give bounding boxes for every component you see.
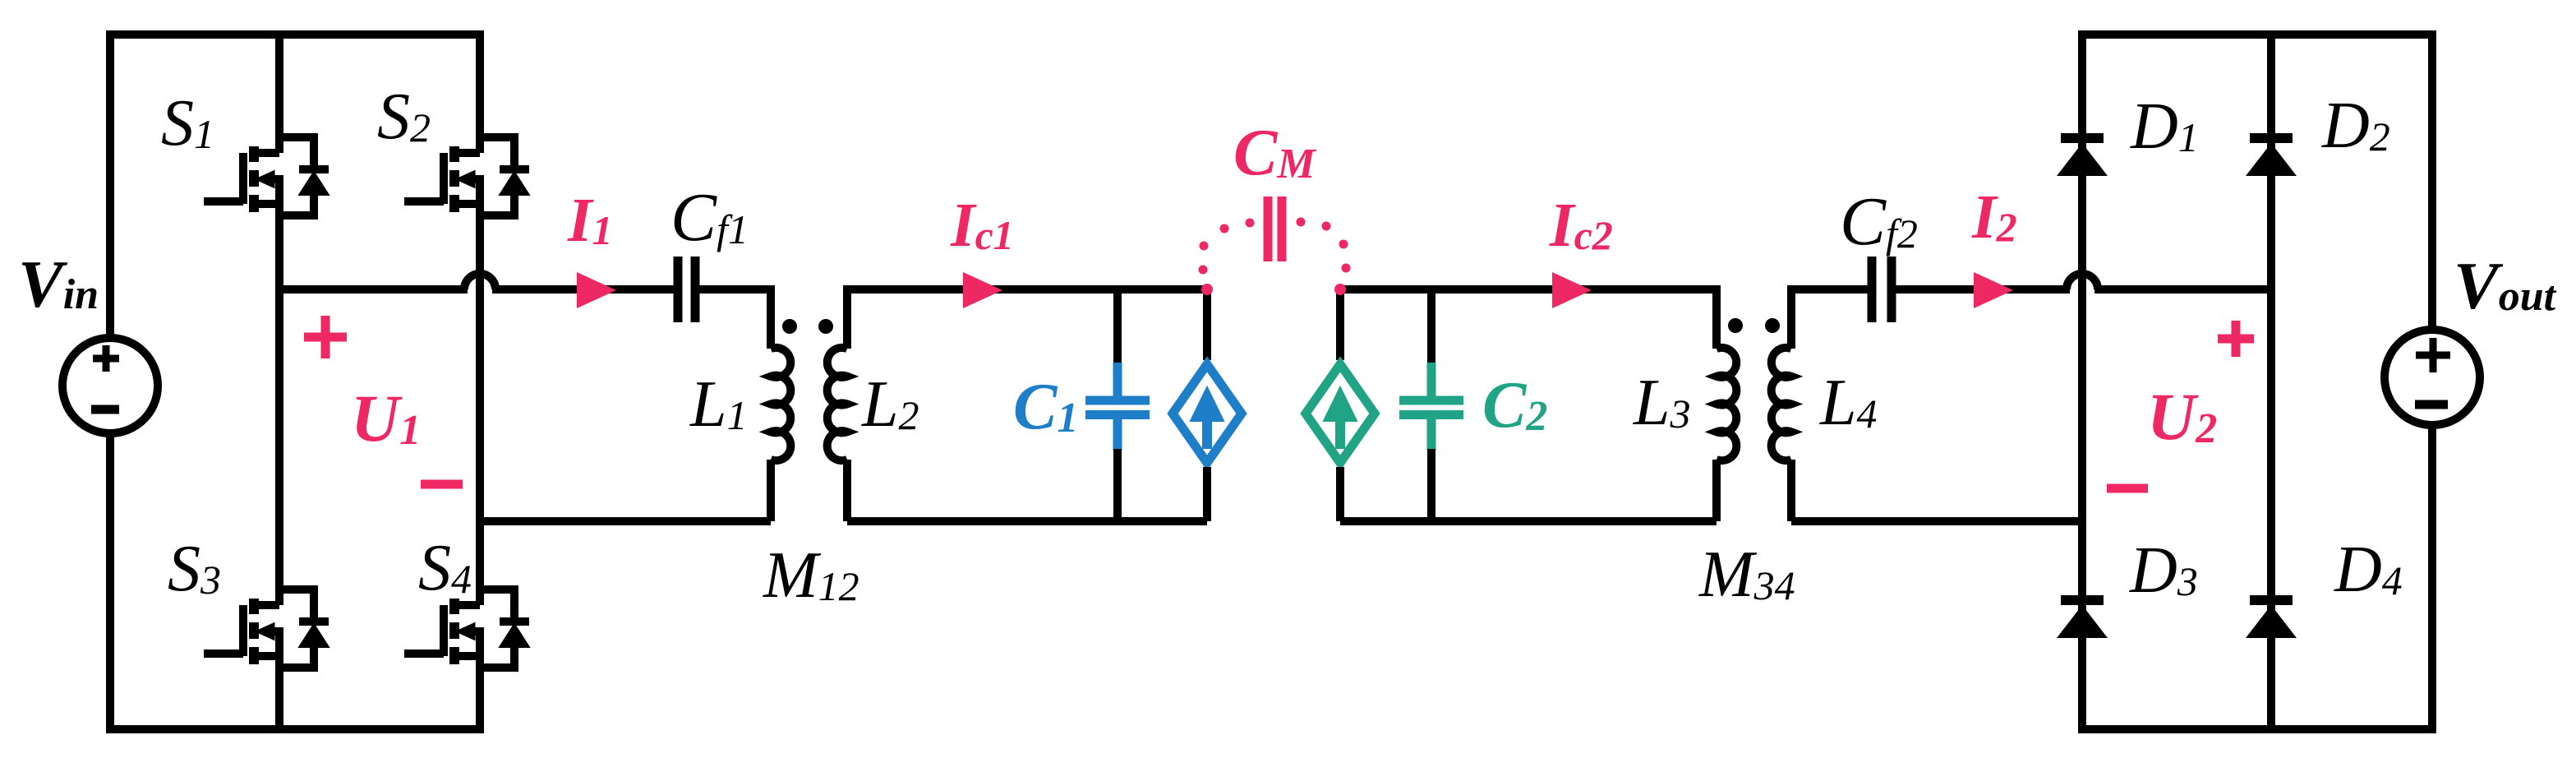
svg-text:CM: CM — [1233, 117, 1316, 189]
svg-text:L1: L1 — [689, 368, 748, 441]
svg-text:M12: M12 — [763, 539, 859, 612]
transistor S2 — [404, 137, 529, 215]
dot polarity mark L1 — [782, 319, 797, 334]
label U1 minus — [421, 480, 463, 489]
svg-text:D1: D1 — [2130, 90, 2199, 163]
inductor L3 (primary winding of M34) — [1717, 285, 1736, 521]
inductor L2 (secondary winding of M12) — [827, 285, 847, 521]
wire top-left rail — [106, 30, 484, 39]
svg-text:Ic1: Ic1 — [950, 191, 1014, 260]
wire L2 loop top rail — [847, 285, 1207, 294]
svg-text:I1: I1 — [567, 186, 613, 255]
inductor L4 (secondary winding of M34) — [1772, 285, 1791, 521]
wire dependent source 2 branch lower — [1336, 467, 1344, 521]
svg-text:S2: S2 — [377, 81, 431, 153]
svg-text:Vout: Vout — [2454, 248, 2557, 323]
wire Cf2 to rectifier with crossover hump — [1893, 274, 2271, 289]
wire top-right rail — [2078, 30, 2432, 39]
svg-text:D3: D3 — [2129, 534, 2198, 607]
svg-text:S1: S1 — [161, 87, 214, 159]
dot polarity mark L3 — [1728, 318, 1743, 333]
wire L2 loop bottom rail — [847, 517, 1207, 525]
wire rectifier leg D1-D3 — [2078, 30, 2086, 733]
wire Vout leg upper — [2428, 30, 2436, 331]
svg-text:C1: C1 — [1013, 371, 1078, 443]
svg-text:D4: D4 — [2334, 534, 2403, 606]
wire bottom-left rail — [106, 725, 484, 733]
node dot right plate of CM — [1334, 284, 1346, 295]
transistor S1 — [204, 137, 329, 215]
wire Vin leg upper — [106, 30, 114, 339]
capacitor C2 — [1399, 363, 1463, 451]
current arrow Ic1 — [963, 272, 1002, 308]
wire Cf1 to L1 — [699, 285, 771, 294]
svg-text:Ic2: Ic2 — [1549, 191, 1613, 260]
capacitor Cf2 — [1872, 257, 1892, 322]
label U2 plus — [2218, 321, 2254, 357]
label U1 plus — [304, 316, 347, 358]
transistor S4 — [404, 589, 529, 668]
dependent current source 2 (green diamond) — [1306, 364, 1375, 463]
voltage source Vout — [2385, 330, 2480, 425]
wire bottom-right rail — [2078, 725, 2432, 733]
current arrow I1 — [577, 272, 616, 308]
diode D1 — [2057, 138, 2108, 176]
wire dependent source 1 branch upper — [1203, 289, 1211, 360]
node dot left plate of CM — [1201, 284, 1213, 295]
svg-text:L2: L2 — [861, 368, 919, 441]
dotted coupling arc right — [1297, 218, 1351, 273]
wire rectifier leg D2-D4 — [2267, 30, 2275, 733]
wire bridge leg S1-S3 — [275, 30, 283, 733]
wire C2 branch upper — [1427, 289, 1435, 364]
svg-text:S3: S3 — [168, 533, 221, 605]
svg-text:U2: U2 — [2147, 379, 2217, 454]
svg-text:I2: I2 — [1971, 183, 2017, 252]
svg-text:C2: C2 — [1482, 369, 1547, 441]
inductor L1 (primary winding of M12) — [771, 285, 790, 521]
capacitor Cf1 — [678, 257, 695, 322]
dot polarity mark L4 — [1765, 318, 1780, 333]
wire bridge upper output with crossover hump — [279, 274, 674, 289]
label U2 minus — [2107, 484, 2148, 493]
diode D4 — [2246, 600, 2297, 638]
wire dependent source 2 branch upper — [1336, 289, 1344, 360]
wire dependent source 1 branch lower — [1203, 467, 1211, 521]
svg-text:Cf1: Cf1 — [670, 179, 749, 256]
wire rectifier lower input rail — [1791, 517, 2082, 525]
current arrow I2 — [1974, 272, 2013, 308]
dot polarity mark L2 — [818, 319, 833, 334]
wire C1 branch lower — [1113, 449, 1122, 521]
wire L3 loop bottom rail — [1340, 517, 1717, 525]
diode D3 — [2057, 600, 2108, 638]
capacitor C1 — [1085, 363, 1150, 451]
dotted coupling arc left — [1199, 219, 1255, 275]
wire C1 branch upper — [1113, 289, 1122, 364]
wire Vin leg lower — [106, 432, 114, 733]
svg-text:U1: U1 — [351, 381, 421, 455]
svg-text:Vin: Vin — [18, 247, 99, 321]
svg-text:D2: D2 — [2321, 90, 2390, 162]
wire Vout leg lower — [2428, 424, 2436, 733]
transistor S3 — [204, 589, 329, 668]
wire L4 to Cf2 — [1791, 285, 1868, 294]
wire L3 loop top rail — [1340, 285, 1717, 294]
current arrow Ic2 — [1552, 272, 1592, 308]
dependent current source 1 (blue diamond) — [1173, 364, 1242, 463]
coupling capacitor CM — [1268, 196, 1282, 261]
wire bridge leg S2-S4 — [476, 30, 484, 733]
svg-text:L3: L3 — [1633, 367, 1691, 439]
svg-text:Cf2: Cf2 — [1840, 183, 1918, 260]
voltage source Vin — [62, 338, 158, 433]
wire C2 branch lower — [1427, 449, 1435, 521]
svg-text:S4: S4 — [418, 532, 472, 604]
wire bridge lower output rail — [480, 517, 771, 525]
diode D2 — [2246, 138, 2297, 176]
svg-text:M34: M34 — [1698, 539, 1795, 611]
svg-text:L4: L4 — [1819, 367, 1878, 439]
